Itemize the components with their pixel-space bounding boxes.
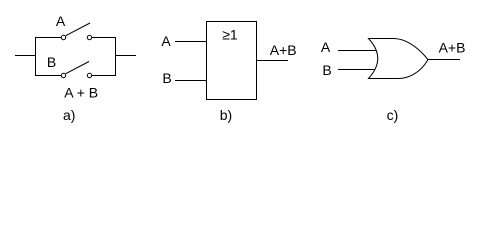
wire: input B of b) xyxy=(175,80,207,82)
svg-text:c): c) xyxy=(387,107,399,123)
svg-text:A+B: A+B xyxy=(270,42,297,58)
OR gate ANSI symbol body c) xyxy=(369,39,429,79)
wire: right rail junction of a) xyxy=(115,37,117,76)
wire: left rail junction of a) xyxy=(35,37,37,76)
svg-text:b): b) xyxy=(220,107,232,123)
svg-text:A: A xyxy=(56,13,66,29)
svg-text:B: B xyxy=(162,70,171,86)
wire: input A of b) xyxy=(175,41,207,43)
svg-text:B: B xyxy=(47,54,56,70)
svg-text:≥1: ≥1 xyxy=(222,27,238,43)
svg-text:B: B xyxy=(322,62,331,78)
svg-text:a): a) xyxy=(63,107,75,123)
wire: output of c) xyxy=(428,59,460,61)
wire: input A of c) xyxy=(338,50,376,52)
svg-text:A+B: A+B xyxy=(439,40,466,56)
svg-text:A + B: A + B xyxy=(64,85,98,101)
wire: top branch to switch A xyxy=(35,37,62,39)
wire: input B of c) xyxy=(338,69,375,71)
svg-text:A: A xyxy=(161,33,171,49)
switch A lever xyxy=(66,23,90,36)
wire: output lead of a) xyxy=(116,55,137,57)
wire: output of b) xyxy=(257,60,289,62)
wire: switch A to right rail xyxy=(92,37,116,39)
wire: switch B to right rail xyxy=(92,75,116,77)
switch A right contact xyxy=(87,35,91,39)
switch A left contact xyxy=(61,35,65,39)
switch B lever xyxy=(66,62,89,74)
OR gate IEC symbol body b) xyxy=(207,22,257,100)
wire: bottom branch to switch B xyxy=(35,75,62,77)
switch B left contact xyxy=(61,73,65,77)
switch B right contact xyxy=(87,73,91,77)
wire: input lead of parallel switch circuit a) xyxy=(15,55,36,57)
svg-text:A: A xyxy=(321,39,331,55)
